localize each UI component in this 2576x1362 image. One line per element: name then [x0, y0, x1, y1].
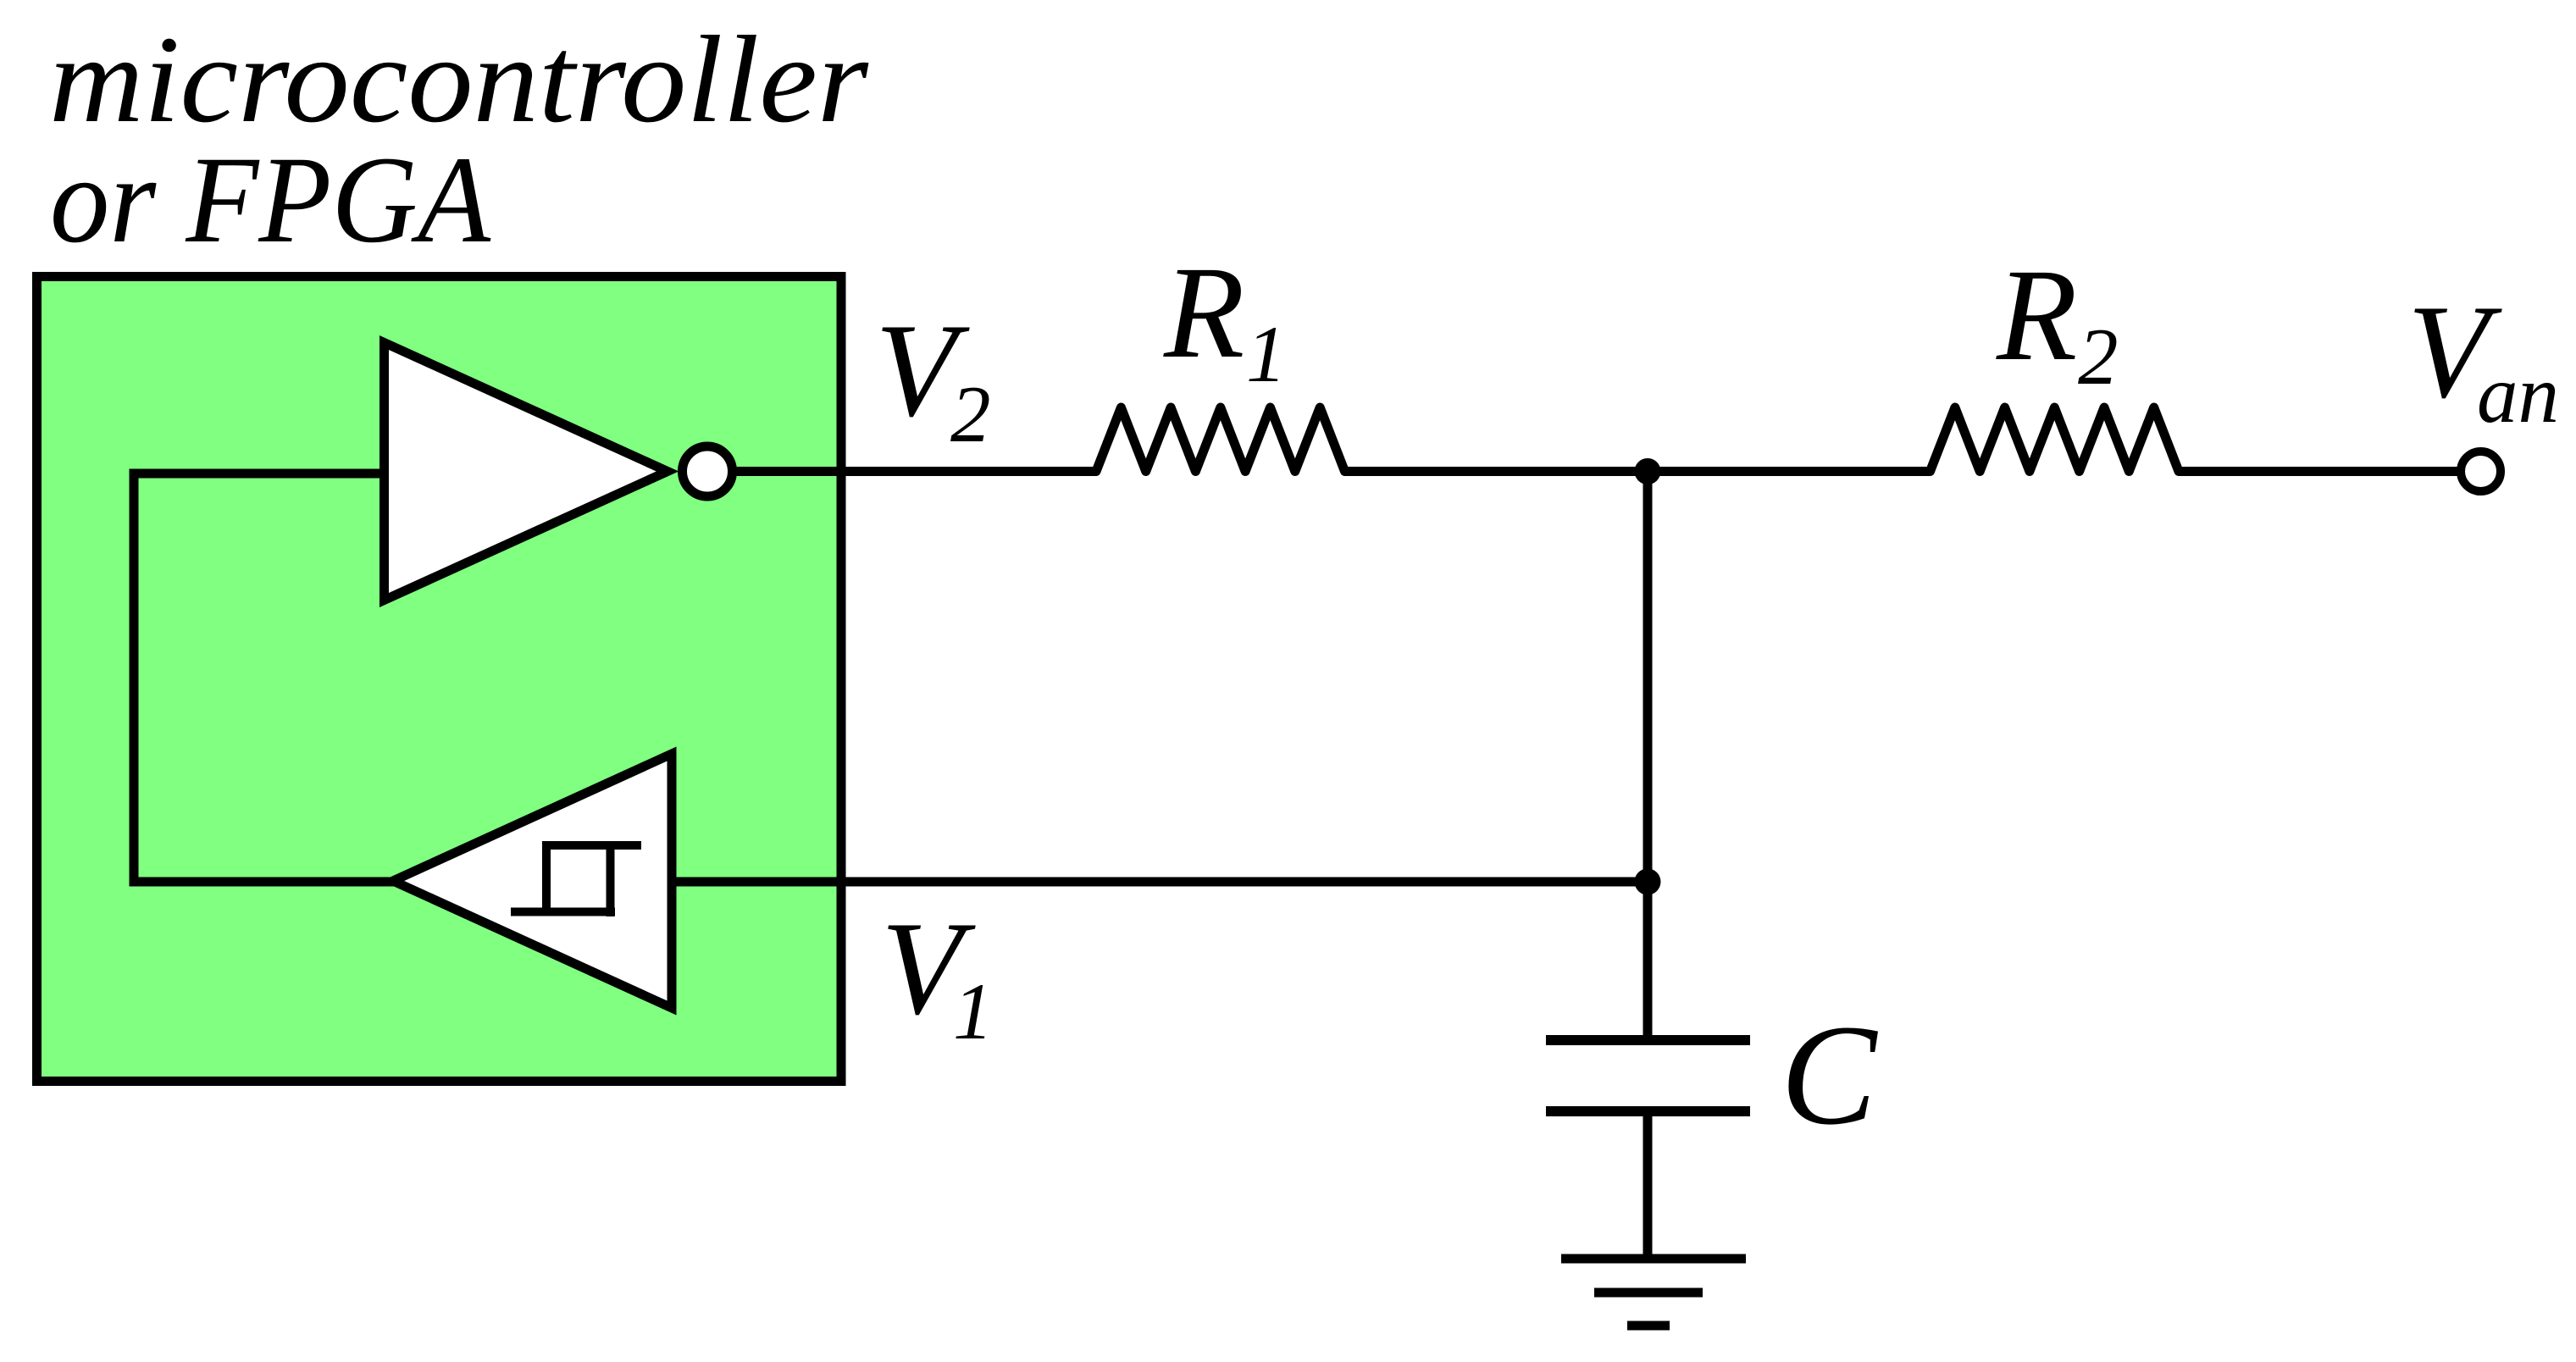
node label V2 — [875, 296, 991, 459]
capacitor C bottom plate — [1546, 1106, 1750, 1116]
svg-text:R: R — [1163, 239, 1244, 385]
svg-text:C: C — [1781, 995, 1878, 1154]
inverter U1A output bubble — [683, 446, 733, 496]
microcontroller box U1 — [37, 277, 842, 1082]
wire: lower junction down to capacitor — [1643, 882, 1653, 1036]
node label Van — [2407, 278, 2559, 440]
wire: V1 from schmitt input to lower junction — [672, 878, 1648, 887]
label: microcontroller or FPGA — [49, 10, 869, 269]
resistor R2 — [1931, 407, 2180, 472]
node label V1 — [881, 894, 994, 1056]
hysteresis symbol — [511, 841, 641, 916]
wire: R2 to Van terminal — [2179, 467, 2457, 476]
svg-text:an: an — [2477, 349, 2559, 440]
node junction dot (top) — [1635, 458, 1661, 484]
wire: feedback vertical — [130, 473, 139, 882]
label R1 — [1163, 239, 1287, 399]
schmitt trigger U1B — [393, 754, 672, 1008]
wire: node vertical down to lower junction — [1643, 472, 1653, 883]
svg-text:2: 2 — [2078, 312, 2119, 401]
terminal Van (open circle) — [2461, 451, 2501, 491]
svg-text:R: R — [1996, 241, 2077, 388]
svg-text:microcontroller: microcontroller — [49, 10, 869, 148]
wire: R1 to node — [1345, 467, 1648, 476]
node junction dot (lower) — [1635, 869, 1661, 895]
wire: capacitor to ground — [1643, 1111, 1653, 1259]
svg-text:1: 1 — [953, 966, 994, 1056]
inverter U1A — [385, 343, 668, 601]
label R2 — [1996, 241, 2119, 401]
wire: feedback top horizontal — [130, 469, 382, 479]
capacitor C top plate — [1546, 1035, 1750, 1045]
svg-text:2: 2 — [950, 369, 991, 459]
resistor R1 — [1096, 407, 1345, 472]
wire: V2 output from bubble through box edge to R1 — [736, 467, 1097, 476]
svg-text:or FPGA: or FPGA — [50, 130, 491, 269]
svg-text:1: 1 — [1246, 309, 1287, 399]
wire: node to R2 — [1648, 467, 1931, 476]
wire: feedback bottom horizontal — [130, 878, 399, 887]
ground — [1561, 1259, 1746, 1326]
